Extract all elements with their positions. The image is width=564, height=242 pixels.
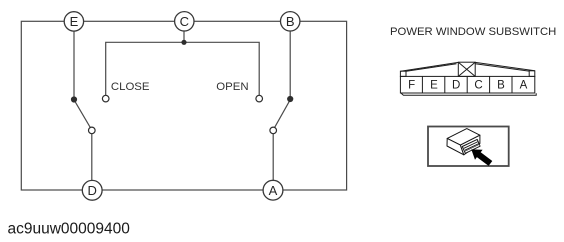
svg-text:F: F: [408, 79, 415, 91]
svg-text:C: C: [180, 14, 189, 29]
svg-text:E: E: [430, 79, 438, 91]
svg-text:D: D: [452, 79, 460, 91]
svg-text:E: E: [70, 14, 79, 29]
svg-text:A: A: [520, 79, 528, 91]
svg-text:C: C: [474, 79, 482, 91]
svg-text:B: B: [286, 14, 295, 29]
svg-text:A: A: [269, 183, 278, 198]
svg-text:OPEN: OPEN: [216, 81, 248, 93]
svg-text:CLOSE: CLOSE: [111, 81, 150, 93]
svg-text:POWER WINDOW SUBSWITCH: POWER WINDOW SUBSWITCH: [390, 26, 556, 38]
svg-text:D: D: [88, 183, 97, 198]
svg-text:ac9uuw00009400: ac9uuw00009400: [8, 220, 131, 237]
svg-text:B: B: [497, 79, 505, 91]
